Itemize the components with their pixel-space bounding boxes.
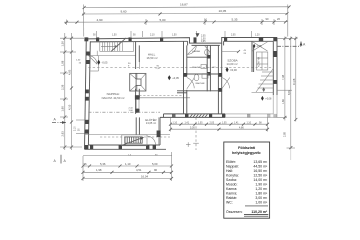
svg-text:1,05: 1,05 bbox=[198, 122, 203, 124]
top wall inner bbox=[90, 41, 273, 45]
svg-text:1,00: 1,00 bbox=[201, 38, 206, 40]
svg-text:2,10: 2,10 bbox=[150, 35, 155, 37]
porch dashed line bbox=[100, 136, 170, 138]
svg-text:4,90: 4,90 bbox=[97, 18, 103, 22]
right dim line v1 bbox=[281, 37, 286, 121]
svg-text:36: 36 bbox=[84, 162, 88, 166]
svg-text:1,90 m²: 1,90 m² bbox=[255, 182, 268, 186]
svg-text:11,08: 11,08 bbox=[292, 78, 296, 85]
tiny dims near wall A doors bbox=[128, 63, 134, 112]
svg-text:Raktár:: Raktár: bbox=[226, 196, 237, 200]
wall jambs right bbox=[273, 51, 277, 57]
porch pier bbox=[158, 117, 160, 145]
entry steps block bbox=[121, 135, 156, 146]
svg-text:-0,05: -0,05 bbox=[102, 61, 108, 65]
level mark right stair bbox=[262, 87, 265, 92]
svg-text:5,35: 5,35 bbox=[232, 18, 238, 22]
svg-text:9,60: 9,60 bbox=[121, 9, 127, 13]
wall jambs left (door + window) bbox=[86, 52, 90, 56]
porch side wall bbox=[136, 117, 139, 134]
dashed beam line upper bbox=[88, 67, 273, 69]
svg-text:13,65 m²: 13,65 m² bbox=[146, 121, 156, 125]
svg-text:Előtér:: Előtér: bbox=[226, 160, 236, 164]
built-in cupboard bbox=[257, 52, 269, 70]
step wall between sections bbox=[159, 117, 161, 145]
interior wall A (x~136) with doors bbox=[135, 41, 140, 114]
corner stair right bbox=[252, 69, 274, 93]
svg-text:16,87: 16,87 bbox=[180, 3, 188, 7]
svg-text:110,20 m²: 110,20 m² bbox=[251, 210, 268, 214]
svg-text:KAMRA: KAMRA bbox=[192, 50, 200, 53]
svg-text:1,50: 1,50 bbox=[60, 41, 64, 47]
svg-text:1,60: 1,60 bbox=[60, 106, 64, 112]
svg-text:10,05: 10,05 bbox=[219, 9, 227, 13]
left wall bbox=[85, 37, 87, 149]
small extension ticks above wall bbox=[67, 19, 275, 37]
svg-text:5,36: 5,36 bbox=[100, 162, 106, 166]
stair top-left bbox=[88, 38, 135, 71]
wall jambs bottom-left bbox=[90, 145, 93, 149]
svg-text:Hall:: Hall: bbox=[226, 169, 233, 173]
bottom-right dim row 1 bbox=[169, 122, 269, 125]
bottom dims row 1 bbox=[82, 162, 174, 168]
svg-text:1,20: 1,20 bbox=[255, 35, 260, 37]
svg-text:Kamra:: Kamra: bbox=[226, 191, 237, 195]
strip partition walls bbox=[187, 56, 207, 58]
svg-text:5,05: 5,05 bbox=[190, 126, 195, 129]
level mark nappali 0,00 bbox=[226, 67, 238, 72]
level mark below right room bbox=[261, 96, 272, 101]
svg-text:1,88: 1,88 bbox=[60, 60, 64, 66]
level mark -0,05 bbox=[97, 60, 108, 65]
wall jambs top bbox=[84, 37, 88, 41]
svg-text:14,00 m²: 14,00 m² bbox=[226, 62, 237, 66]
svg-text:RAKTÁR: RAKTÁR bbox=[196, 82, 205, 85]
tiny dims above wall bbox=[93, 35, 260, 37]
svg-text:2,63: 2,63 bbox=[60, 131, 64, 137]
svg-text:Konyha:: Konyha: bbox=[226, 174, 239, 178]
stacked dims above recess bbox=[201, 36, 206, 43]
svg-text:1,41: 1,41 bbox=[185, 122, 190, 124]
level mark hall +0,05 bbox=[168, 75, 180, 80]
svg-text:16,50 m²: 16,50 m² bbox=[253, 169, 268, 173]
svg-text:1,80 m²: 1,80 m² bbox=[255, 191, 268, 195]
level mark kitchen bbox=[253, 44, 263, 49]
wall jambs bottom-right + window sill hatch bbox=[185, 114, 189, 118]
svg-text:1,98: 1,98 bbox=[96, 168, 102, 172]
nappali lower-left label bbox=[102, 92, 125, 100]
svg-text:5,00: 5,00 bbox=[160, 18, 166, 22]
svg-text:4,83: 4,83 bbox=[67, 69, 71, 75]
section arrow A left bbox=[52, 118, 66, 124]
svg-text:2,10: 2,10 bbox=[75, 126, 77, 131]
svg-text:4,10: 4,10 bbox=[67, 104, 71, 110]
svg-text:WC: WC bbox=[212, 67, 216, 69]
svg-text:+0,08: +0,08 bbox=[265, 97, 272, 100]
right dim line v2 bbox=[283, 37, 292, 161]
middle strip wall D2 bbox=[207, 45, 211, 91]
room list table bbox=[224, 142, 270, 218]
bottom-right wall bbox=[160, 116, 225, 118]
chimney block bbox=[130, 73, 146, 91]
svg-text:Kamra:: Kamra: bbox=[226, 187, 237, 191]
svg-text:Szoba:: Szoba: bbox=[226, 178, 237, 182]
svg-text:14,00 m²: 14,00 m² bbox=[253, 178, 268, 182]
svg-text:1,10: 1,10 bbox=[125, 162, 131, 166]
svg-text:MOSDÓ: MOSDÓ bbox=[192, 66, 201, 69]
top dimension line segments 4,90 5,00 ... bbox=[64, 17, 288, 24]
svg-text:16,50 m²: 16,50 m² bbox=[146, 56, 157, 60]
svg-text:44,50 m²: 44,50 m² bbox=[253, 165, 268, 169]
elotér label bbox=[145, 117, 156, 125]
svg-text:Mosdó:: Mosdó: bbox=[226, 182, 238, 186]
kitchen door swing X bbox=[253, 42, 268, 51]
hall/room divider bbox=[139, 97, 190, 99]
porch roof line bbox=[84, 134, 170, 136]
svg-text:13,65 m²: 13,65 m² bbox=[253, 160, 268, 164]
svg-text:4,51: 4,51 bbox=[136, 168, 142, 172]
svg-text:2,05: 2,05 bbox=[231, 35, 236, 37]
svg-text:5,00: 5,00 bbox=[152, 162, 158, 166]
svg-text:2,88: 2,88 bbox=[283, 132, 286, 137]
svg-text:1,10: 1,10 bbox=[173, 122, 178, 124]
bottom dims row 3 total bbox=[82, 174, 174, 180]
right dim line v3 bbox=[292, 37, 297, 122]
svg-text:16,04: 16,04 bbox=[141, 174, 148, 178]
svg-text:-0,05: -0,05 bbox=[256, 45, 262, 48]
svg-text:helyiségjegyzék:: helyiségjegyzék: bbox=[232, 151, 261, 155]
dashed section line lower-left bbox=[88, 111, 160, 113]
svg-text:+0,05: +0,05 bbox=[172, 76, 179, 80]
svg-text:Nappali:: Nappali: bbox=[226, 165, 239, 169]
section arrow B top bbox=[196, 33, 200, 37]
bottom-right dim extensions bbox=[170, 117, 172, 131]
bottom dims row 2 bbox=[82, 168, 174, 174]
terrace edge lines bbox=[83, 154, 172, 156]
svg-text:4,86: 4,86 bbox=[239, 126, 244, 129]
nappali room label bbox=[226, 58, 237, 66]
top dimension line total 16,87 bbox=[83, 3, 291, 9]
svg-text:1,88: 1,88 bbox=[282, 99, 285, 104]
top wall outer bbox=[86, 38, 277, 44]
middle strip wall C bbox=[218, 43, 222, 114]
svg-text:3,00 m²: 3,00 m² bbox=[255, 196, 268, 200]
svg-text:NAGYM. 44,50 m²: NAGYM. 44,50 m² bbox=[102, 96, 125, 100]
svg-text:2,05: 2,05 bbox=[210, 122, 215, 124]
dashed vertical below right section bbox=[195, 117, 197, 150]
svg-text:1,50: 1,50 bbox=[112, 35, 117, 37]
svg-text:2,05: 2,05 bbox=[201, 36, 206, 38]
right dim extensions bbox=[277, 37, 298, 39]
svg-text:WC:: WC: bbox=[226, 200, 233, 204]
bottom-left wall bbox=[85, 148, 167, 150]
svg-text:7,38: 7,38 bbox=[281, 74, 285, 80]
kitchen partition bbox=[252, 41, 254, 72]
svg-text:±0,00: ±0,00 bbox=[230, 68, 237, 72]
room label hall/szoba bbox=[146, 52, 157, 60]
top extension verticals bbox=[83, 5, 85, 37]
section mark A bottom-left bbox=[54, 155, 67, 164]
bottom-right dim row 2 bbox=[169, 126, 269, 131]
strip door swings bbox=[187, 78, 195, 89]
svg-text:1,00 m²: 1,00 m² bbox=[255, 200, 268, 204]
svg-text:1,05: 1,05 bbox=[222, 122, 227, 124]
tiny room labels strip bbox=[192, 50, 216, 85]
svg-text:1,20 m²: 1,20 m² bbox=[255, 187, 268, 191]
right wall bbox=[276, 37, 278, 95]
svg-text:90: 90 bbox=[154, 168, 158, 172]
svg-text:ELŐTÉR: ELŐTÉR bbox=[145, 117, 156, 122]
section arrow A top right bbox=[277, 42, 306, 47]
svg-text:1,41: 1,41 bbox=[234, 122, 239, 124]
door swing in left wall bbox=[89, 56, 97, 64]
svg-text:12,50 m²: 12,50 m² bbox=[253, 174, 268, 178]
top dimension line 9,60 / 10,05 bbox=[82, 9, 289, 16]
svg-text:Összesen:: Összesen: bbox=[226, 210, 243, 214]
middle strip wall D1 bbox=[183, 41, 187, 114]
svg-text:2,26: 2,26 bbox=[60, 84, 64, 90]
left dimension line bbox=[60, 33, 84, 150]
svg-text:1,50: 1,50 bbox=[172, 35, 177, 37]
svg-text:1,10: 1,10 bbox=[247, 122, 252, 124]
bottom dim extensions bbox=[82, 156, 84, 181]
svg-text:Földszinti: Földszinti bbox=[238, 146, 255, 150]
